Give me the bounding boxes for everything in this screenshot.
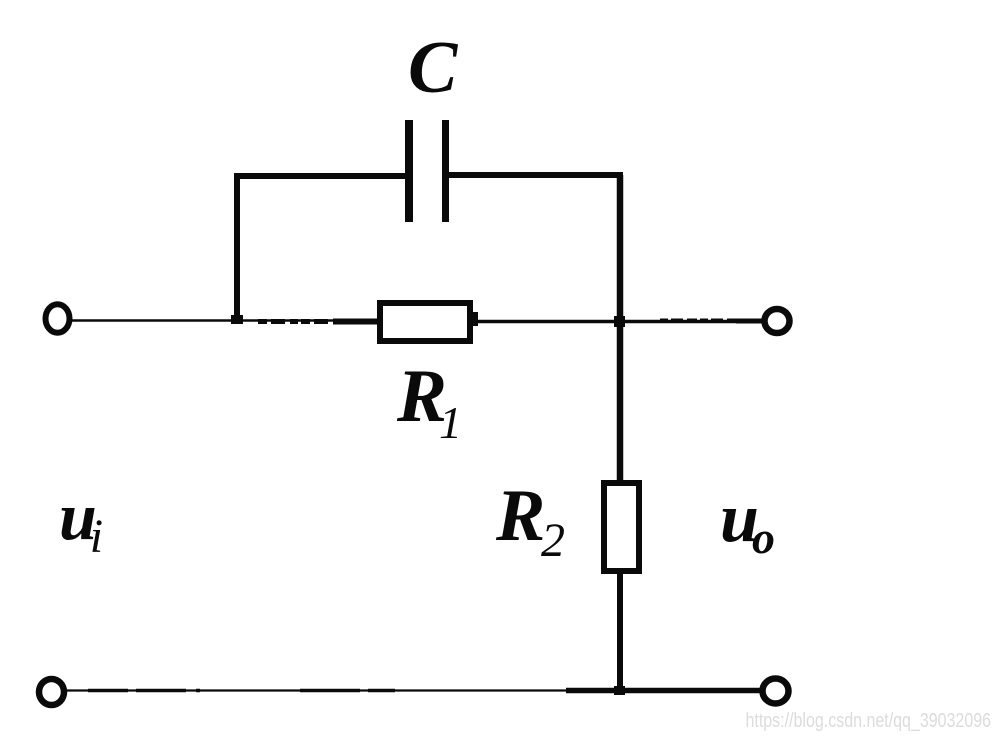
- svg-text:1: 1: [439, 397, 462, 448]
- wire top-right horizontal (capacitor right plate to right branch): [449, 172, 623, 178]
- node A junction blob: [231, 315, 243, 324]
- wire dashes before R1: [258, 319, 336, 324]
- svg-text:R: R: [495, 475, 545, 557]
- wire top-left horizontal (node A to capacitor left plate): [234, 173, 405, 179]
- svg-text:i: i: [90, 510, 103, 563]
- ground terminal circle (bottom-left): [39, 679, 64, 705]
- wire left vertical drop (top branch down to input wire): [234, 173, 240, 322]
- bottom rail dashes 2: [300, 689, 395, 692]
- svg-text:2: 2: [541, 514, 565, 567]
- wire R1 to output terminal: [477, 320, 762, 323]
- resistor R1 right tab: [470, 312, 478, 326]
- wire solid into R1: [333, 319, 380, 325]
- node B junction dot: [614, 316, 625, 327]
- wire dashes after node B: [660, 319, 738, 323]
- capacitor C left plate: [405, 120, 413, 222]
- bottom junction blob: [614, 686, 625, 695]
- svg-text:https://blog.csdn.net/qq_39032: https://blog.csdn.net/qq_39032096: [746, 709, 992, 732]
- output terminal circle (top-right): [765, 309, 790, 333]
- svg-text:o: o: [752, 512, 775, 563]
- bottom rail wire thin: [66, 689, 570, 691]
- wire input to R1: [72, 319, 380, 321]
- capacitor C right plate: [442, 120, 449, 222]
- wire solid before output terminal: [736, 319, 762, 324]
- wire right vertical (top branch down through node B to R2): [617, 175, 624, 481]
- ground terminal circle (bottom-right): [763, 679, 789, 704]
- wire R2 to bottom rail: [617, 571, 623, 691]
- bottom rail dashes: [88, 689, 200, 693]
- svg-text:C: C: [408, 27, 459, 109]
- bottom rail thick segment: [566, 688, 760, 694]
- resistor R2: [604, 483, 639, 571]
- input terminal circle (top-left): [46, 304, 70, 333]
- resistor R1: [380, 303, 470, 341]
